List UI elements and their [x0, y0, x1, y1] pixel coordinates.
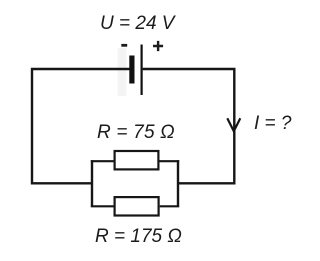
label U = 24 V [100, 14, 174, 33]
battery minus polarity mark [121, 44, 127, 47]
wire top branch right stub [160, 160, 180, 162]
label R = 75 ohm [97, 123, 175, 142]
battery plus polarity mark [153, 41, 163, 51]
label I = ? [254, 114, 292, 133]
faint scan smudge above battery minus [118, 48, 127, 96]
wire bottom branch right stub [160, 205, 180, 207]
node A: left junction bar of parallel pair [91, 160, 93, 206]
current arrowhead on right wire [227, 118, 240, 131]
wire top branch left stub [91, 160, 114, 162]
wire left loop: top-left across to battery, down left side, bottom to node A [32, 69, 130, 183]
wire bottom branch left stub [91, 205, 114, 207]
node B: right junction bar of parallel pair [177, 160, 179, 206]
wire right loop: battery to top-right corner, down right side, to node B [143, 69, 235, 183]
resistor R1 (75 ohm) body [115, 151, 159, 169]
battery U1 positive plate (long thin bar) [141, 45, 143, 96]
resistor R2 (175 ohm) body [115, 197, 159, 215]
battery U1 negative plate (short thick bar) [129, 56, 134, 84]
label R = 175 ohm [95, 227, 182, 246]
